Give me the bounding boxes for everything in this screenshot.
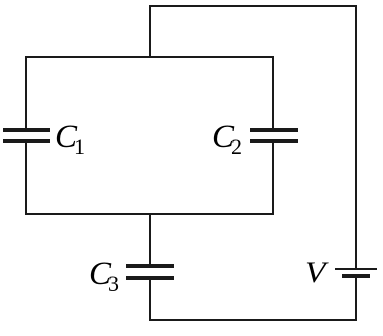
wire: inner box right lower (C2 to bottom) <box>272 143 274 215</box>
battery V <box>0 0 383 1</box>
wire: inner box right upper (top to C2) <box>272 56 274 128</box>
capacitor C3 <box>0 0 383 1</box>
wire: outer right vertical lower (battery to bottom wire) <box>355 278 357 320</box>
wire: middle vertical lower (C3 to bottom wire) <box>149 280 151 321</box>
wire: inner box left lower (C1 to bottom) <box>25 143 27 215</box>
label C1 <box>55 121 88 154</box>
wire: inner box left upper (top to C1) <box>25 56 27 128</box>
capacitor C1 <box>0 0 383 1</box>
capacitor C2 <box>0 0 383 1</box>
wire: outer right vertical upper (top wire to battery) <box>355 5 357 268</box>
wire: outer bottom horizontal <box>149 319 357 322</box>
label C2 <box>212 121 245 154</box>
wire: inner box bottom horizontal <box>25 213 274 216</box>
wire: outer top horizontal <box>149 5 357 7</box>
label C3 <box>89 258 122 291</box>
wire: top connector vertical (node between top wire and inner box) <box>149 5 151 58</box>
wire: middle vertical upper (inner box bottom to C3) <box>149 214 151 264</box>
label V <box>305 258 326 288</box>
wire: inner box top horizontal <box>25 56 274 58</box>
